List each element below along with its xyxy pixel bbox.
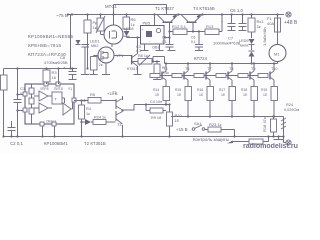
svg-text:Т7: Т7 (207, 67, 211, 71)
svg-text:УПР.5: УПР.5 (40, 87, 49, 91)
svg-text:radiomodelist.ru: radiomodelist.ru (243, 143, 298, 150)
svg-text:РВ5: РВ5 (143, 21, 151, 26)
svg-text:КРЕН8Б=7815: КРЕН8Б=7815 (28, 43, 62, 48)
svg-text:10000мкФ*63В: 10000мкФ*63В (213, 41, 241, 46)
svg-text:R17: R17 (219, 88, 225, 92)
svg-text:R24: R24 (286, 103, 293, 107)
svg-text:+48 В: +48 В (284, 20, 298, 26)
svg-text:R8 1к: R8 1к (138, 54, 148, 58)
svg-text:1к: 1к (86, 112, 90, 116)
svg-text:LED8: LED8 (124, 27, 134, 31)
svg-text:1б: 1б (199, 93, 203, 97)
svg-text:LED1: LED1 (90, 40, 100, 44)
svg-text:КП723А=IRFZ40: КП723А=IRFZ40 (28, 52, 66, 57)
svg-text:С4 10н: С4 10н (150, 100, 162, 104)
svg-text:0,025Ом: 0,025Ом (284, 108, 299, 112)
svg-text:R16: R16 (197, 88, 203, 92)
svg-text:R14: R14 (153, 88, 159, 92)
svg-text:R23 1к: R23 1к (209, 122, 222, 127)
svg-text:Т1 КТ837: Т1 КТ837 (155, 6, 174, 11)
svg-text:Т5: Т5 (163, 67, 167, 71)
svg-text:R9 1б: R9 1б (151, 116, 162, 120)
svg-text:1б: 1б (263, 93, 267, 97)
svg-text:0,1: 0,1 (162, 40, 167, 44)
svg-text:SA1: SA1 (194, 121, 202, 126)
svg-text:R15: R15 (175, 88, 181, 92)
svg-text:R12 5,1: R12 5,1 (172, 24, 187, 29)
svg-text:LED9: LED9 (239, 39, 249, 43)
svg-text:МТС1: МТС1 (105, 4, 118, 9)
svg-text:У1: У1 (68, 87, 72, 91)
svg-text:1,5кВт/48ч: 1,5кВт/48ч (262, 27, 267, 46)
svg-text:40А: 40А (267, 21, 274, 26)
svg-text:Т8: Т8 (229, 67, 233, 71)
svg-text:0,1: 0,1 (191, 40, 196, 44)
svg-text:С6 1,0: С6 1,0 (230, 8, 243, 13)
svg-text:С6: С6 (191, 36, 195, 40)
svg-text:R18: R18 (241, 88, 247, 92)
svg-text:Т6: Т6 (185, 67, 189, 71)
svg-text:0,1: 0,1 (136, 49, 141, 53)
svg-text:Т4 КТ816Б: Т4 КТ816Б (193, 6, 215, 11)
svg-text:Контроль защиты: Контроль защиты (193, 137, 229, 142)
svg-text:1б: 1б (243, 93, 247, 97)
svg-text:4700мкФ25В: 4700мкФ25В (44, 60, 68, 65)
svg-text:С5: С5 (162, 36, 166, 40)
svg-text:ПИТ.8: ПИТ.8 (54, 87, 63, 91)
svg-text:Т9: Т9 (251, 67, 255, 71)
svg-text:КТ815: КТ815 (127, 67, 138, 71)
svg-text:1б: 1б (221, 93, 225, 97)
svg-text:КП724: КП724 (194, 56, 208, 61)
svg-text:С2 0,1: С2 0,1 (10, 141, 23, 146)
svg-text:R5: R5 (90, 92, 96, 97)
svg-text:мигн.: мигн. (240, 44, 249, 48)
svg-text:Т3: Т3 (117, 123, 121, 127)
svg-text:R24 1к: R24 1к (94, 116, 106, 120)
svg-text:Т2 КТ361Б: Т2 КТ361Б (84, 141, 106, 146)
svg-text:1б: 1б (155, 93, 159, 97)
svg-text:1б: 1б (177, 93, 181, 97)
svg-text:Т10: Т10 (271, 67, 278, 71)
svg-text:КР1006ВИ1: КР1006ВИ1 (44, 141, 68, 146)
svg-text:2к: 2к (99, 62, 103, 67)
svg-text:МК2: МК2 (91, 44, 99, 48)
svg-text:+: + (142, 28, 144, 32)
svg-text:КР1006ВИ1=NE555: КР1006ВИ1=NE555 (28, 34, 74, 39)
svg-text:16: 16 (52, 75, 57, 80)
svg-text:~75 В: ~75 В (56, 13, 68, 18)
svg-text:R19: R19 (261, 88, 267, 92)
svg-text:−: − (149, 40, 151, 44)
svg-text:Т2: Т2 (112, 91, 116, 95)
svg-text:R10: R10 (175, 114, 182, 118)
svg-text:1к: 1к (93, 25, 97, 30)
svg-text:+15 В: +15 В (176, 127, 188, 132)
svg-text:ОВ1: ОВ1 (152, 46, 160, 50)
svg-text:3к: 3к (257, 24, 261, 29)
svg-text:R4: R4 (86, 107, 91, 111)
svg-text:М1: М1 (274, 52, 280, 57)
svg-text:R18 47к: R18 47к (262, 117, 267, 132)
svg-text:R13: R13 (206, 24, 214, 29)
svg-text:+: + (63, 66, 66, 71)
